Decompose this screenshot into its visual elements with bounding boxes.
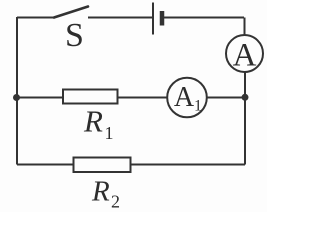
svg-text:A: A [233,38,257,74]
wire resistor R1 to ammeter A1 [118,97,169,99]
svg-text:R: R [83,104,103,139]
svg-text:2: 2 [111,192,120,212]
battery short thick plate (-) [160,11,165,26]
ammeter A circle [226,35,263,72]
svg-text:S: S [65,17,84,54]
battery long plate (+) [152,3,154,35]
svg-text:A: A [174,82,195,113]
wire right vertical to ammeter A [244,18,246,36]
wire battery to top-right corner [164,17,244,19]
wire bottom left [17,164,74,166]
ammeter A1 circle [167,78,207,118]
wire top-left horizontal [17,17,54,19]
wire left node to resistor R1 [17,97,63,99]
node right junction [242,94,249,101]
svg-text:1: 1 [105,123,114,143]
wire left vertical [16,17,18,165]
wire switch to battery [88,17,152,19]
wire bottom right [131,164,245,166]
svg-text:1: 1 [194,98,202,115]
resistor R2 box [74,158,131,173]
switch S blade [54,7,88,18]
svg-text:R: R [91,176,110,208]
wire ammeter A to bottom-right corner [244,72,246,165]
resistor R1 box [63,90,118,104]
node left junction [13,94,20,101]
wire ammeter A1 to right node [207,97,245,99]
